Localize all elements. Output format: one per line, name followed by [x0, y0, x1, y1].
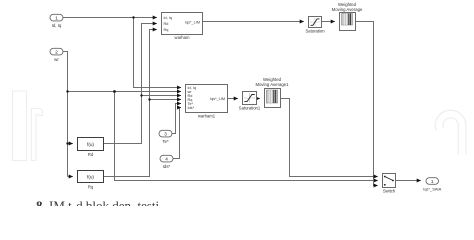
wire switch output to outport	[396, 180, 421, 182]
svg-text:1: 1	[55, 15, 58, 20]
watermark arc	[439, 114, 462, 154]
inport 4	[160, 155, 173, 169]
outport 1	[423, 178, 442, 192]
wire control from wr line down to switch in2	[115, 92, 378, 181]
svg-text:wr: wr	[54, 57, 59, 62]
junction fcn1 output branch	[140, 94, 142, 96]
fcn block Rq	[78, 171, 104, 190]
svg-text:Rd: Rd	[164, 22, 169, 26]
svg-text:Ids*: Ids*	[163, 164, 171, 169]
svg-text:Saturation1: Saturation1	[239, 105, 261, 110]
wire port1 branch down to subsystem2 in1	[134, 18, 182, 88]
junction fcn2 output branch	[148, 98, 150, 100]
wire stub into fcn1	[68, 143, 73, 145]
wire port4 to subsystem2 in6	[173, 108, 181, 159]
svg-text:1: 1	[431, 179, 434, 184]
inport 1	[50, 14, 63, 27]
svg-text:f(u): f(u)	[87, 142, 94, 147]
junction fcn1 input branch	[66, 142, 68, 144]
svg-text:Iqs*_LIM: Iqs*_LIM	[210, 97, 225, 101]
svg-text:warham: warham	[175, 35, 190, 40]
wire port3 to subsystem2 in5	[172, 104, 181, 134]
wire fcn1 output branch to subsystem2 in3	[142, 95, 182, 97]
svg-text:Moving Average1: Moving Average1	[255, 82, 289, 87]
wire subsystem2 output to Saturation1	[228, 98, 238, 100]
inport 2	[50, 48, 63, 62]
wire Saturation1 to WMA1	[257, 98, 260, 100]
subsystem1 block	[162, 13, 203, 40]
junction control branch	[113, 90, 116, 93]
svg-text:2: 2	[55, 49, 58, 54]
wire port1 to subsystem1 in1	[63, 17, 157, 19]
svg-text:Ids*: Ids*	[188, 106, 195, 110]
svg-text:4: 4	[165, 156, 168, 161]
svg-text:Rq: Rq	[164, 28, 169, 32]
watermark letter r	[32, 109, 43, 161]
wire subsystem1 output to Saturation	[203, 21, 304, 23]
svg-text:Moving Average: Moving Average	[332, 7, 363, 12]
figure caption	[36, 198, 160, 213]
watermark letter I	[13, 91, 27, 161]
svg-text:Switch: Switch	[383, 189, 396, 194]
svg-text:Id, Iq: Id, Iq	[164, 16, 172, 20]
weighted moving average block	[332, 2, 363, 30]
svg-text:3: 3	[164, 131, 167, 136]
svg-text:warham1: warham1	[198, 114, 216, 119]
svg-text:8. IM t-d blok den. testi: 8. IM t-d blok den. testi	[36, 198, 160, 206]
saturation block	[305, 17, 325, 34]
svg-text:Rd: Rd	[88, 152, 94, 157]
wire fcn2 output up to subsystem1 in3	[104, 30, 157, 177]
svg-text:f(u): f(u)	[87, 174, 94, 179]
svg-text:Saturation: Saturation	[305, 28, 325, 33]
inport 3	[159, 130, 172, 144]
svg-text:Iqs*_LIM: Iqs*_LIM	[185, 21, 200, 25]
svg-text:Id, Iq: Id, Iq	[52, 23, 62, 28]
wire WMA down to switch in3	[356, 22, 378, 186]
fcn block Rd	[78, 138, 104, 158]
junction wr line at x67	[66, 90, 68, 92]
wire wr branch to subsystem2 in2	[68, 91, 182, 93]
wire port2 down to fcn2 input	[63, 52, 68, 177]
wire fcn1 output up to subsystem1 in2	[104, 24, 157, 144]
saturation1 block	[239, 92, 261, 111]
junction on port1 wire	[132, 16, 134, 18]
switch block	[383, 174, 396, 194]
wire Saturation to WMA	[322, 21, 335, 23]
weighted moving average1 block	[255, 77, 289, 108]
svg-text:Iqs*_SAtA: Iqs*_SAtA	[423, 186, 442, 191]
wire WMA1 down to switch in1	[281, 99, 378, 177]
wire stub into fcn2	[68, 176, 73, 178]
wire fcn2 output branch to subsystem2 in4	[150, 99, 182, 101]
svg-text:Rq: Rq	[88, 184, 94, 189]
svg-text:Te*: Te*	[162, 139, 169, 144]
subsystem2 block	[186, 85, 228, 119]
